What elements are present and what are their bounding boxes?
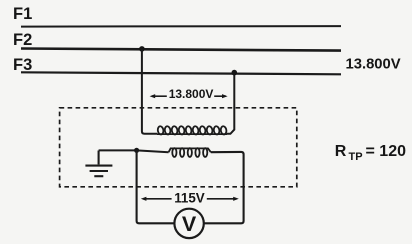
wire measurement left branch <box>137 150 175 223</box>
wire primary right vertical <box>227 73 234 134</box>
svg-text:13.800V: 13.800V <box>346 57 401 73</box>
svg-text:F1: F1 <box>13 5 32 23</box>
bus F3 wire <box>21 72 341 74</box>
svg-text:= 120: = 120 <box>366 143 407 160</box>
svg-text:TP: TP <box>349 151 363 163</box>
svg-text:13.800V: 13.800V <box>169 87 214 101</box>
transformer T1 primary winding <box>157 126 227 135</box>
wire secondary right to voltmeter <box>204 152 243 223</box>
wire secondary left from ground to winding <box>99 150 169 152</box>
voltmeter V1 <box>174 209 203 238</box>
bus F2 wire <box>21 49 341 51</box>
node junction F2 tap <box>139 46 145 52</box>
label secondary voltage 115V with arrows <box>141 191 239 206</box>
ground symbol <box>85 151 112 177</box>
label primary voltage 13.800V with arrows <box>150 87 228 101</box>
svg-text:V: V <box>182 212 197 236</box>
transformer T1 secondary winding <box>169 148 211 157</box>
svg-text:R: R <box>335 143 347 160</box>
bus F1 wire <box>21 25 341 28</box>
node junction secondary tap <box>134 148 139 153</box>
svg-text:115V: 115V <box>174 191 205 206</box>
svg-text:F2: F2 <box>13 31 32 49</box>
node junction F3 tap <box>232 70 238 76</box>
label R_TP = 120 <box>335 143 406 163</box>
dashed enclosure potential transformer <box>60 108 297 187</box>
wire primary left vertical <box>142 49 157 134</box>
